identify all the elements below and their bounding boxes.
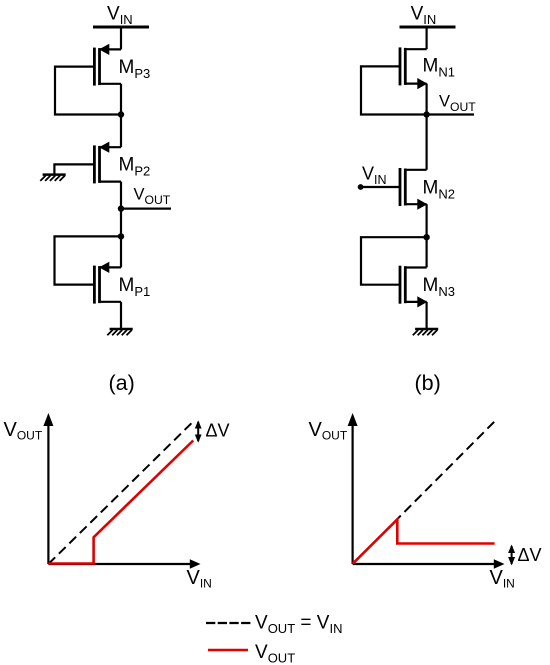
graph a: delta-V arrow <box>195 420 202 442</box>
transistor MP3 <box>94 44 121 86</box>
node VOUT (b) <box>423 111 429 117</box>
junction MP1 gate/source <box>118 233 124 239</box>
legend red sample <box>208 649 248 652</box>
wire MP3 gate loop <box>55 67 121 115</box>
transistor MP2 <box>94 142 121 184</box>
wire MP1 drain to ground <box>120 302 122 329</box>
junction MP3 drain/gate <box>118 111 124 117</box>
junction MN3 gate/drain <box>423 234 429 240</box>
svg-text:(b): (b) <box>415 371 441 395</box>
svg-text:ΔV: ΔV <box>206 421 230 441</box>
wire VIN to MN2 gate <box>361 186 400 188</box>
wire MN3 gate loop <box>361 237 427 285</box>
wire MP2 drain to VOUT node <box>120 182 122 237</box>
graph a: x axis <box>48 559 200 569</box>
graph b: y axis <box>348 413 358 564</box>
wire MN3 source to ground <box>426 302 428 329</box>
wire MN1 gate loop <box>361 66 427 114</box>
node VOUT (a) <box>118 205 124 211</box>
wire MN1 source down <box>426 84 428 170</box>
power rail VIN (b) <box>400 26 456 29</box>
graph a: dashed line VOUT=VIN <box>48 423 191 564</box>
transistor MP1 <box>94 262 121 304</box>
transistor MN3 <box>400 266 427 308</box>
wire rail to MN1 drain <box>426 27 428 49</box>
graph b: x axis <box>353 559 505 569</box>
ground at MP2 gate <box>40 175 65 181</box>
input terminal VIN (b) <box>358 184 364 190</box>
ground (b) bottom <box>413 329 438 335</box>
transistor MN2 <box>400 168 427 210</box>
graph a: red VOUT curve <box>48 441 193 564</box>
wire MP2 gate to ground <box>54 164 94 174</box>
graph b: delta-V arrow <box>508 545 515 566</box>
wire MP3 drain down <box>120 84 122 147</box>
svg-text:(a): (a) <box>109 371 135 395</box>
transistor MN1 <box>400 47 427 89</box>
legend dashed sample <box>206 622 251 624</box>
ground (a) bottom <box>107 329 132 335</box>
graph a: y axis <box>43 413 53 564</box>
wire MP1 gate loop <box>55 236 122 284</box>
power rail VIN (a) <box>93 26 149 29</box>
wire MN2 source to MN3 drain <box>426 204 428 267</box>
wire VOUT stub (a) <box>121 208 171 210</box>
graph b: red VOUT curve <box>353 519 495 563</box>
wire rail to MP3 source <box>120 27 122 49</box>
wire node to MP1 source <box>120 236 122 267</box>
svg-text:ΔV: ΔV <box>518 545 542 565</box>
graph b: dashed line VOUT=VIN <box>353 419 497 564</box>
wire VOUT stub (b) <box>427 113 474 115</box>
